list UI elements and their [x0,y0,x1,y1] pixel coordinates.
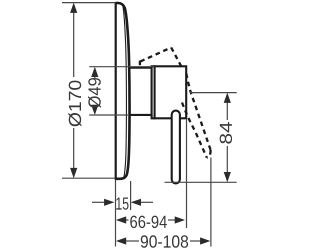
dimension 90-108: dimension line [125,240,139,242]
dimension 15: label [116,197,128,209]
dimension 84: extension line top (from pivot) [190,92,237,94]
dimension 15: right tail line [141,201,153,203]
lever handle (closed position, pointing down) [172,111,180,184]
extension line: dashed lever tip down to 90-108 [210,158,212,247]
dimension 84: label [220,122,232,144]
dashed open lever lower edge [182,103,207,158]
dimension 84: arrow down [224,172,231,182]
dimension 90-108: left arrow [116,237,126,244]
dimension Ø170: dimension line [73,11,75,77]
dimension 66-94: label [130,216,167,228]
dimension Ø49: extension line top [89,66,154,68]
dimension Ø170: extension line top [62,2,116,4]
dashed open lever upper edge [186,74,210,151]
dimension Ø49: dimension line [94,75,96,78]
dimension 66-94: dimension line [125,219,129,221]
dimension Ø49: label [88,78,101,108]
dimension 66-94: left arrow [116,216,126,223]
dimension 66-94: right arrow [175,216,185,223]
dimension Ø170: arrow down [70,168,77,178]
dimension Ø49: extension line bottom [89,114,128,116]
dimension 15: left arrow (pointing right) [104,199,114,206]
dashed lever raised end cap [171,48,181,68]
sleeve (escutcheon collar) [129,68,152,115]
dimension 15: right arrow (pointing left) [131,199,141,206]
dimension 90-108: right arrow [200,237,210,244]
extension line: body right edge down to 66-94 [186,119,188,228]
dimension 90-108: label [141,235,188,247]
dimension Ø170: extension line bottom [62,177,115,179]
extension line: plate front face down to bottom dims [115,180,117,247]
dimension 84: arrow up [224,93,231,103]
dimension Ø170: arrow up [70,3,77,13]
handle body (cartridge housing) [152,66,187,118]
dimension 84: dimension line [226,102,228,120]
dimension Ø170: label [68,81,81,127]
dimension 84: extension line bottom (lever tip level) [165,181,237,183]
dimension Ø49: arrow up [91,67,98,77]
extension line: plate rear corner for 15 dim [130,181,132,210]
dimension 15: left tail line [92,201,105,203]
dashed open lever tip [207,150,211,158]
dimension Ø49: arrow down [91,105,98,115]
dashed lever (raised/open position) top edge [140,48,211,158]
escutcheon plate (side view) [116,2,130,180]
